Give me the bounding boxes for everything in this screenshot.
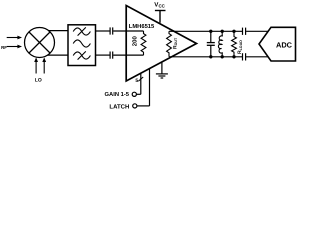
capacitor C4 (output coupling, top) [243,28,246,35]
mixer U1 (circle with X) [25,28,55,58]
LATCH terminal circle [133,104,137,108]
wire amp to ADC (top rail) [169,30,242,32]
svg-text:LMH6515: LMH6515 [129,23,155,30]
resistor ROUT (output impedance) [167,31,172,57]
svg-text:200: 200 [131,36,138,47]
VCC supply symbol [155,11,166,23]
resistor RLOAD [232,31,237,57]
bandpass filter FL1 [68,25,96,66]
wire mixer to filter (bottom) [47,54,68,56]
svg-text:LO: LO [35,78,42,84]
svg-text:LATCH: LATCH [109,104,129,111]
node junction C3 bottom [209,55,212,58]
wire C5 to ADC [246,56,268,58]
svg-text:RLOAD: RLOAD [237,40,243,54]
LO input arrow (left) [34,57,38,73]
node junction RLOAD bottom [232,55,235,58]
LO input arrow (right) [42,57,46,73]
GAIN pin wire [137,74,141,95]
node junction C3 top [209,30,212,33]
svg-text:RF: RF [1,45,7,50]
node junction L1 bottom [221,55,224,58]
node junction RLOAD top [232,30,235,33]
bus slash (5 bits) [138,77,143,81]
ADC U3 block [259,27,296,61]
RF input arrow (bottom) [7,45,22,49]
svg-text:VCC: VCC [154,2,165,9]
capacitor C5 (output coupling, bottom) [243,53,246,60]
inductor L1 (shunt) [218,31,222,57]
svg-text:GAIN 1-5: GAIN 1-5 [105,91,130,98]
RF input arrow (top) [7,36,22,40]
wire mixer to filter (top) [48,30,68,32]
resistor R1 200 (input termination) [141,31,146,55]
capacitor C3 (shunt) [207,31,215,57]
GAIN terminal circle [132,92,136,96]
svg-text:5: 5 [135,78,138,84]
svg-text:ROUT: ROUT [173,37,179,49]
wire C1 to amp (top) [113,30,143,32]
wire filter to C2 (bottom) [96,54,110,56]
wire C2 to amp (bottom) [113,54,143,56]
wire amp to ADC (bottom rail) [169,56,242,58]
LATCH pin wire [137,69,150,106]
capacitor C2 (input coupling, bottom) [110,52,113,59]
wire filter to C1 (top) [96,30,110,32]
svg-text:ADC: ADC [276,40,293,49]
ground (amp) [156,62,168,78]
capacitor C1 (input coupling, top) [110,27,113,34]
wire C4 to ADC [246,30,268,32]
op-amp U2 LMH6515 triangle [126,6,196,82]
node junction L1 top [221,30,224,33]
